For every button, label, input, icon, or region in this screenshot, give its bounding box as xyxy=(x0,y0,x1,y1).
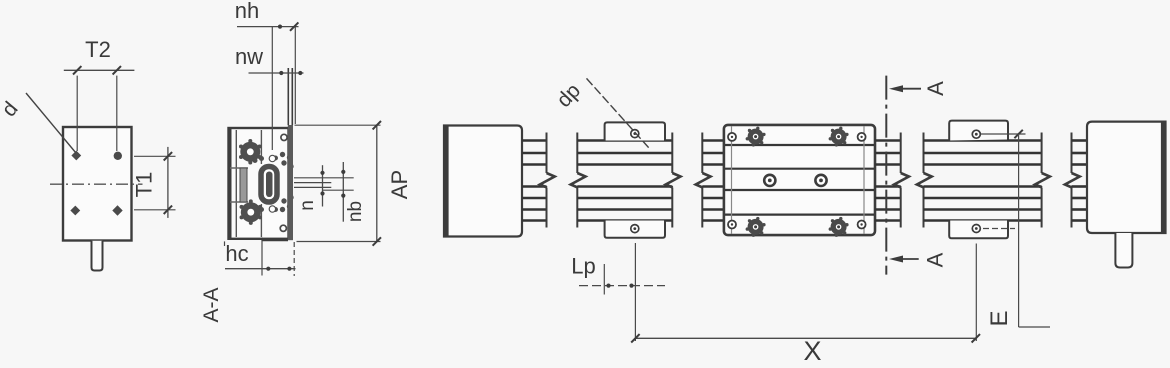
rail profile ring (section) xyxy=(261,167,277,203)
rail segment A end line xyxy=(546,133,548,174)
corner screw lower xyxy=(280,225,286,231)
bottom lug of segment B xyxy=(605,221,665,238)
dimension nh line xyxy=(237,26,299,28)
n nb extension lines xyxy=(294,177,354,179)
svg-text:E: E xyxy=(986,310,1013,326)
inner wall line 2 upper xyxy=(260,130,262,164)
dimension hc line xyxy=(225,268,296,270)
svg-text:AP: AP xyxy=(387,170,412,199)
dimension E vertical line xyxy=(1018,134,1020,327)
carriage corner hole BL xyxy=(728,221,736,229)
svg-text:A: A xyxy=(923,252,948,267)
carriage big ring BL xyxy=(750,222,761,233)
break zigzag segment D xyxy=(894,173,909,188)
bottom lug hole of segment E xyxy=(972,225,980,233)
hole bottom-right (diamond) xyxy=(112,205,122,215)
dimension E leader from top hole xyxy=(981,133,1026,135)
left end block thick face xyxy=(444,126,449,237)
section arrow top xyxy=(896,88,921,90)
top lug of segment E xyxy=(949,121,1008,141)
carriage big ring TR xyxy=(833,131,844,142)
leader line for d xyxy=(26,93,76,153)
bottom lug hole xyxy=(631,225,639,233)
svg-text:n: n xyxy=(297,200,318,211)
bottom tab of block xyxy=(92,241,103,271)
section carriage bottom step xyxy=(261,238,263,241)
inner wall line xyxy=(235,130,237,237)
dp leader line xyxy=(587,78,650,148)
dimension T2 line xyxy=(64,69,135,71)
slot bar xyxy=(240,168,247,202)
break zigzag segment A xyxy=(540,173,555,188)
rail segment D lines xyxy=(875,141,901,221)
centre line of block (dash-dot) xyxy=(50,183,143,185)
rail segment B end line xyxy=(671,133,673,174)
carriage corner hole TR xyxy=(858,133,866,141)
hole bottom-left (square) xyxy=(72,207,80,215)
svg-text:Lp: Lp xyxy=(571,254,595,279)
break zigzag segment E left xyxy=(917,173,932,188)
right end block xyxy=(1087,122,1166,233)
carriage corner hole BR xyxy=(858,221,866,229)
left end block xyxy=(444,126,522,237)
section arrow bottom xyxy=(896,258,919,260)
section cut line A-A xyxy=(885,76,887,275)
break zigzag segment E right xyxy=(1035,173,1050,188)
thick outer face of carriage xyxy=(228,128,231,239)
Lp left tick xyxy=(603,264,605,295)
carriage big ring TL xyxy=(750,131,761,142)
break zigzag segment B left xyxy=(571,173,586,188)
hc stub extension xyxy=(224,241,226,246)
rail segment F start line xyxy=(1071,133,1073,174)
svg-text:T2: T2 xyxy=(85,37,111,62)
mounting plate upper part xyxy=(287,68,289,125)
rail segment E lines xyxy=(924,141,1042,221)
top lug hole dp xyxy=(631,130,639,138)
break zigzag segment B right xyxy=(666,173,681,188)
svg-text:A-A: A-A xyxy=(200,287,223,322)
top lug of segment B xyxy=(605,122,665,140)
carriage centre nipple right xyxy=(815,175,826,186)
svg-text:X: X xyxy=(803,336,821,366)
svg-text:T1: T1 xyxy=(132,172,157,198)
carriage big ring BR xyxy=(833,222,844,233)
carriage block (side view) xyxy=(724,125,875,235)
svg-text:nh: nh xyxy=(235,0,259,23)
carriage centre nipple left xyxy=(764,175,775,186)
dimension nb line xyxy=(342,162,344,222)
bottom lug of segment E xyxy=(949,221,1008,239)
dimension E base line xyxy=(1019,326,1050,328)
carriage corner hole TL xyxy=(728,133,736,141)
rail segment B start line xyxy=(576,133,578,174)
rail segment E end line xyxy=(1041,133,1043,174)
ball gap circles xyxy=(269,155,275,161)
rail segment C lines xyxy=(702,141,724,221)
hole top-right (circle) xyxy=(114,152,122,160)
dashed line from bottom hole of segment E xyxy=(983,228,1015,230)
X extension line left xyxy=(634,243,636,341)
rail segment A lines xyxy=(522,141,547,221)
carriage inner horizontal lines xyxy=(725,145,874,215)
rail segment E start line xyxy=(923,133,925,174)
rail segment D end line xyxy=(900,133,902,174)
corner screw upper xyxy=(281,134,287,140)
right block bottom tab xyxy=(1115,233,1132,268)
nh extension lines xyxy=(271,27,273,150)
carriage block outline (top view) xyxy=(63,127,132,241)
svg-text:A: A xyxy=(923,81,948,96)
dimension AP line xyxy=(376,125,378,241)
dimension hc extension lines xyxy=(261,241,263,276)
dimension nw line xyxy=(249,72,304,74)
inner wall line 2 lower xyxy=(260,204,262,237)
ball nut ring lower xyxy=(241,202,261,222)
break zigzag segment C xyxy=(696,173,711,188)
dimension T2 extension lines xyxy=(76,76,78,151)
right end block thick face xyxy=(1161,122,1166,233)
mounting plate lower part (filled) xyxy=(288,125,293,240)
slot lines xyxy=(230,167,248,169)
X extension line right xyxy=(975,244,977,342)
ball dots xyxy=(253,152,294,212)
dimension n line xyxy=(322,165,324,206)
dimension Lp dashed line xyxy=(579,285,665,287)
rail segment F lines xyxy=(1072,141,1088,221)
break zigzag segment F xyxy=(1065,173,1080,188)
svg-text:nw: nw xyxy=(235,44,263,69)
svg-text:nb: nb xyxy=(345,201,366,222)
svg-text:hc: hc xyxy=(225,241,248,266)
ball nut ring upper xyxy=(240,142,260,162)
rail segment B lines xyxy=(577,141,672,221)
carriage body outline (section) xyxy=(229,128,289,239)
dimension T1 extension lines xyxy=(134,155,176,157)
carriage end cap lines xyxy=(731,126,733,234)
top lug hole of segment E xyxy=(972,130,980,138)
rail segment C start line xyxy=(701,133,703,174)
dimension X line xyxy=(635,337,975,339)
hole top-left (diamond) xyxy=(71,151,81,161)
dimension AP extension lines xyxy=(295,124,381,126)
dimension T1 line xyxy=(167,147,169,218)
